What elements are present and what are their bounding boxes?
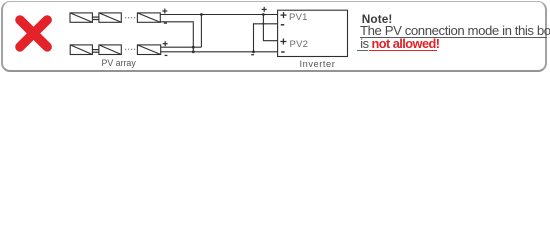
label PV1 bbox=[289, 12, 308, 23]
wire: PV1 - input down to bottom - wire bbox=[254, 24, 278, 52]
label Inverter bbox=[300, 59, 336, 69]
underline of note line 2 bbox=[360, 37, 547, 38]
PV2 minus terminal symbol bbox=[281, 51, 284, 53]
red X (not-allowed mark) bbox=[20, 20, 47, 47]
PV2 plus terminal symbol bbox=[280, 39, 286, 45]
outer rounded border box bbox=[1, 1, 547, 72]
underline of note line 3 red part bbox=[369, 50, 437, 51]
PV panel bottom row module 2 bbox=[99, 45, 121, 55]
PV panel top row module 1 bbox=[70, 13, 92, 22]
PV1 minus terminal symbol bbox=[281, 24, 284, 26]
wire: branch from + wire down to bottom + wire bbox=[200, 15, 202, 48]
link wires between bottom modules 1-2 bbox=[92, 50, 99, 53]
underline of note line 3 gray part bbox=[357, 50, 368, 51]
dotted continuation wire bottom string bbox=[125, 48, 136, 50]
junction dots bbox=[192, 13, 265, 53]
note line 2 bbox=[360, 23, 550, 38]
minus terminal label bottom string bbox=[165, 54, 168, 56]
PV1 plus terminal symbol bbox=[281, 12, 287, 18]
wire: branch from + wire to PV2 + input bbox=[263, 15, 277, 41]
label PV array bbox=[102, 58, 136, 68]
wire: bottom string + to branch node bbox=[161, 46, 202, 48]
label PV2 bbox=[290, 39, 309, 50]
note heading bbox=[362, 12, 393, 26]
PV panel top row module 2 bbox=[99, 13, 121, 22]
plus label above PV junction bbox=[262, 7, 267, 12]
plus terminal label top string bbox=[162, 9, 167, 14]
wire: top string - down to bottom junction bbox=[160, 22, 193, 52]
inverter box bbox=[278, 10, 348, 56]
wire: bottom string - to PV2 - input bbox=[161, 51, 278, 53]
plus terminal label bottom string bbox=[163, 41, 168, 46]
note line 3 bbox=[357, 36, 439, 51]
PV panel top row module 3 bbox=[137, 13, 160, 22]
wire: top string + to PV1 input bbox=[160, 14, 277, 16]
minus terminal label top string bbox=[164, 22, 167, 24]
minus label at lower-wire junction bbox=[251, 54, 254, 56]
dotted continuation wire top string bbox=[125, 17, 136, 19]
link wires between top modules 1-2 bbox=[92, 17, 99, 19]
PV panel bottom row module 3 bbox=[137, 45, 160, 55]
PV panel bottom row module 1 bbox=[70, 45, 92, 55]
